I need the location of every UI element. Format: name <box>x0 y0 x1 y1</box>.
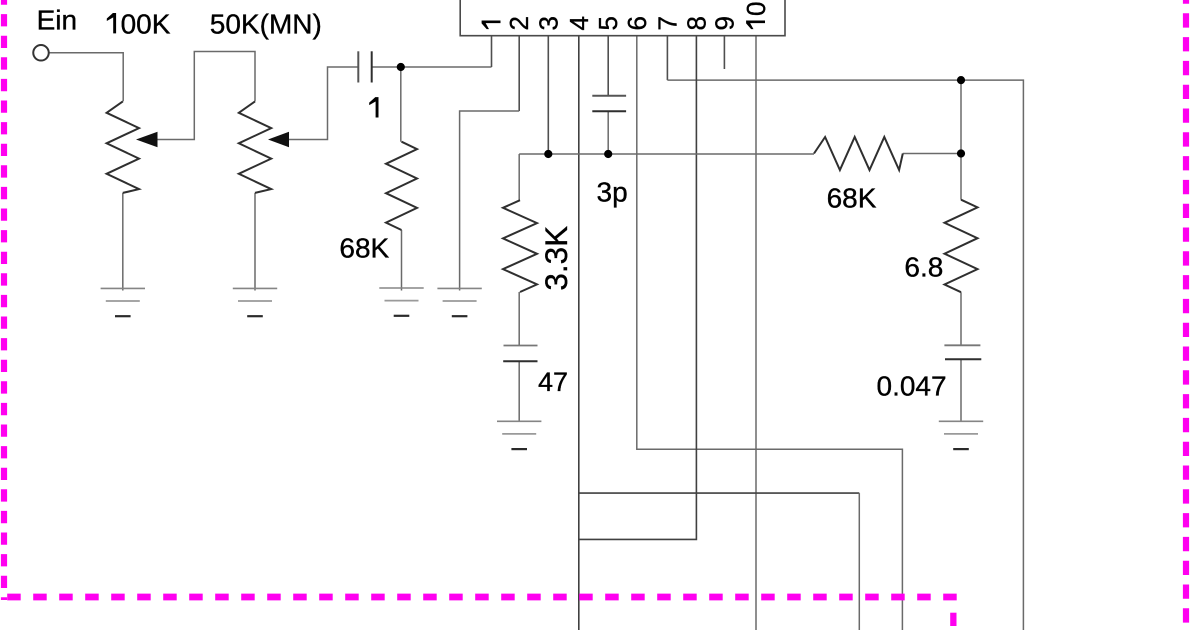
svg-text:7: 7 <box>652 16 682 30</box>
svg-text:Ein: Ein <box>37 5 77 36</box>
svg-text:3.3K: 3.3K <box>538 226 574 291</box>
svg-text:68K: 68K <box>827 183 877 214</box>
svg-text:0.047: 0.047 <box>877 371 947 402</box>
svg-text:8: 8 <box>681 16 711 30</box>
svg-text:4: 4 <box>564 16 594 30</box>
svg-text:9: 9 <box>709 16 739 30</box>
svg-text:6: 6 <box>622 16 652 30</box>
svg-text:47: 47 <box>538 367 568 397</box>
svg-text:2: 2 <box>504 16 534 30</box>
svg-text:00K: 00K <box>121 8 171 39</box>
svg-text:3: 3 <box>533 16 563 30</box>
svg-text:50K(MN): 50K(MN) <box>210 8 322 39</box>
svg-text:3p: 3p <box>597 177 628 208</box>
svg-text:5: 5 <box>593 16 623 30</box>
svg-text:68K: 68K <box>339 233 389 264</box>
svg-text:0: 0 <box>741 2 771 16</box>
svg-text:6.8: 6.8 <box>904 252 943 283</box>
